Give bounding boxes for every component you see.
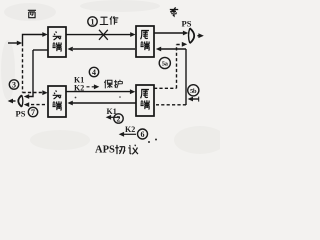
- wire K1 label arrow: [109, 116, 120, 118]
- label 工作 working: [100, 16, 119, 25]
- wire dashed east to B4 lower: [156, 104, 186, 106]
- arrowhead dashed into east PS: [182, 42, 187, 47]
- node circled 3 west bridge step: [9, 80, 18, 90]
- arrowhead dashed into B3: [42, 90, 47, 95]
- wire dashed west bridge vertical: [22, 43, 24, 93]
- arrowhead into B1 return: [67, 47, 72, 52]
- arrowhead east PS output: [198, 33, 203, 38]
- arrowhead K1 into B3: [67, 101, 72, 106]
- svg-text:1: 1: [91, 18, 95, 27]
- svg-text:6: 6: [141, 130, 145, 139]
- wire east vertical column: [185, 49, 187, 105]
- arrowhead into west PS bottom: [24, 102, 29, 107]
- node circled 7 west switch step: [28, 107, 37, 117]
- wire west riser to B1: [23, 35, 43, 44]
- wire K1 protection line E to W: [73, 102, 137, 104]
- west PS selector crescent: [18, 95, 22, 107]
- svg-text:4: 4: [92, 68, 96, 77]
- wire west PS output: [13, 100, 16, 102]
- arrowhead into B1: [42, 32, 47, 37]
- svg-text:7: 7: [31, 108, 35, 117]
- wire working line W to E: [66, 34, 131, 36]
- arrowhead into B2 from east: [156, 47, 161, 52]
- arrowhead into B2 working: [130, 32, 135, 37]
- arrowhead K2 into B4: [130, 89, 135, 94]
- svg-text:PS: PS: [16, 109, 26, 119]
- speck right of circled 6: [155, 139, 157, 141]
- wire east input stub: [193, 98, 199, 100]
- wire B2 to east PS: [154, 32, 183, 34]
- node circled 4 K-byte step: [89, 67, 98, 77]
- arrowhead K2 bottom label arrow: [119, 132, 124, 137]
- label 西 west: [28, 10, 36, 17]
- speck on protection channel: [75, 97, 77, 99]
- wire west PS working column: [29, 50, 33, 97]
- failure cross on working line: [99, 30, 108, 40]
- arrowhead east input: [188, 97, 193, 102]
- label 东 east: [170, 7, 178, 16]
- wire dashed east PS riser: [176, 45, 178, 89]
- box B3 head-end west protection (头端): [48, 86, 66, 117]
- arrowhead west PS output: [8, 99, 13, 104]
- svg-text:K2: K2: [125, 125, 135, 134]
- arrowhead K1 label arrow: [106, 115, 111, 120]
- node circled 2 K1 send step: [114, 114, 123, 124]
- paper background: [0, 0, 220, 165]
- label 头端 in B3: [52, 90, 61, 110]
- svg-text:APS: APS: [95, 145, 115, 156]
- arrowhead into east PS working: [183, 31, 188, 36]
- svg-text:K2: K2: [74, 84, 84, 93]
- node circled 6 K2 confirm step: [138, 129, 148, 139]
- node circled 5b east step: [188, 85, 199, 96]
- svg-text:5b: 5b: [190, 88, 197, 95]
- wire dashed B4 upper to east PS riser: [154, 87, 177, 89]
- wire dashed B3 to west PS: [29, 104, 45, 106]
- svg-text:2: 2: [117, 115, 121, 124]
- wire dashed west bridge to B3: [23, 92, 43, 94]
- arrowhead into west PS top: [24, 94, 29, 99]
- wire west input stub: [8, 42, 17, 44]
- box B1 head-end west (头端): [48, 27, 66, 57]
- node circled 5a east detect step: [159, 57, 170, 68]
- box B4 tail-end east protection (尾端): [136, 85, 154, 116]
- east PS selector crescent: [190, 28, 194, 43]
- svg-text:3: 3: [12, 81, 16, 90]
- arrowhead K2 label arrow: [94, 84, 99, 89]
- wire return working line E to W: [73, 48, 135, 50]
- wire dashed K2 arrow: [87, 86, 96, 88]
- wire B1 lower-left to PS column: [33, 49, 48, 51]
- wire east riser top: [161, 48, 186, 50]
- label 尾端 in B4: [140, 89, 149, 109]
- node circled 1 working failure: [88, 17, 97, 27]
- speck near K2 line: [119, 96, 121, 98]
- svg-text:PS: PS: [182, 19, 192, 29]
- east PS output stub: [197, 35, 199, 37]
- wire K2 protection line W to E: [66, 91, 130, 93]
- box B2 tail-end east (尾端): [136, 26, 154, 57]
- arrowhead west input: [17, 41, 22, 46]
- label 保护 protection: [104, 80, 122, 89]
- wire K2 label arrow: [122, 133, 136, 135]
- label 尾端 in B2: [140, 30, 149, 50]
- wire east input tick: [198, 97, 200, 102]
- label 头端 in B1: [52, 31, 61, 51]
- speck near circled 6: [148, 141, 150, 143]
- wire dashed into east PS: [177, 44, 183, 46]
